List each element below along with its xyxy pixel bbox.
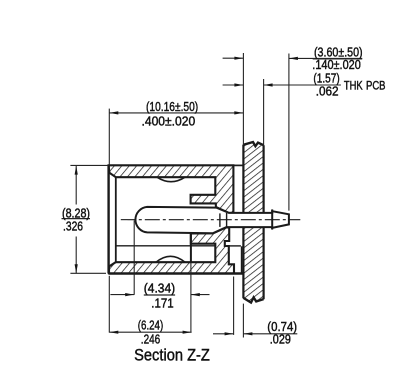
pin collar edge lines — [219, 213, 221, 227]
fraction bar (3.60) — [313, 58, 363, 60]
extension line body bottom left — [70, 272, 106, 274]
extension line body face bottom — [233, 277, 235, 335]
svg-text:(10.16±.50): (10.16±.50) — [146, 99, 198, 114]
svg-text:.326: .326 — [63, 219, 83, 234]
dimension (10.16) line — [109, 112, 243, 114]
front rim inner edge — [115, 177, 117, 262]
hole edge arc in upper wall — [157, 177, 185, 182]
pin cone base disc edge — [271, 209, 273, 229]
svg-text:(6.24): (6.24) — [138, 318, 163, 333]
center contact pin — [135, 207, 288, 233]
extension line insulator step — [190, 234, 192, 263]
extension line body left bottom — [108, 276, 110, 333]
dimension (6.24) line — [109, 331, 191, 333]
svg-text:Section Z-Z: Section Z-Z — [134, 346, 210, 364]
extension line body top left — [70, 164, 108, 166]
extension line contact front — [133, 221, 135, 295]
dimension (8.28) line — [75, 166, 77, 205]
extension line pin tip — [288, 54, 290, 211]
svg-text:.246: .246 — [141, 332, 160, 347]
insulator step edge (visible edge behind cut) — [116, 245, 215, 247]
svg-text:.140±.020: .140±.020 — [312, 57, 361, 72]
connector body upper shell (hatched section) — [109, 165, 234, 213]
mounting leg edge (visible edge behind cut) — [241, 246, 243, 273]
body top flange edge to PCB (visible edge behind cut) — [233, 164, 243, 166]
body bottom flange edge (visible edge behind cut) — [109, 272, 243, 274]
extension line body left top — [108, 109, 110, 165]
dimension (0.74) lines — [213, 333, 234, 335]
svg-text:(4.34): (4.34) — [144, 281, 175, 296]
dimension (3.60) lines — [223, 57, 244, 59]
centerline — [121, 219, 300, 221]
svg-text:PCB: PCB — [366, 79, 386, 93]
extension line PCB left face bottom — [242, 304, 244, 338]
dimension (1.57) lines — [223, 84, 244, 86]
connector body lower shell (hatched section) — [109, 227, 234, 273]
dimension (4.34) lines — [110, 294, 134, 296]
svg-text:.171: .171 — [151, 296, 173, 311]
svg-text:.029: .029 — [270, 332, 291, 347]
svg-text:.062: .062 — [316, 83, 339, 98]
extension line PCB right face top — [263, 79, 265, 145]
front rim outer edge — [107, 165, 109, 273]
insulator step edge right of body face — [229, 245, 241, 247]
PCB lower section (hatched) — [243, 227, 263, 302]
svg-text:THK: THK — [344, 79, 363, 93]
PCB upper section (hatched) — [243, 142, 263, 213]
fraction bar (8.28) — [62, 218, 91, 220]
svg-text:.400±.020: .400±.020 — [142, 113, 196, 128]
hole edge arc in lower wall — [156, 256, 185, 262]
extension line PCB left face top — [242, 53, 244, 145]
